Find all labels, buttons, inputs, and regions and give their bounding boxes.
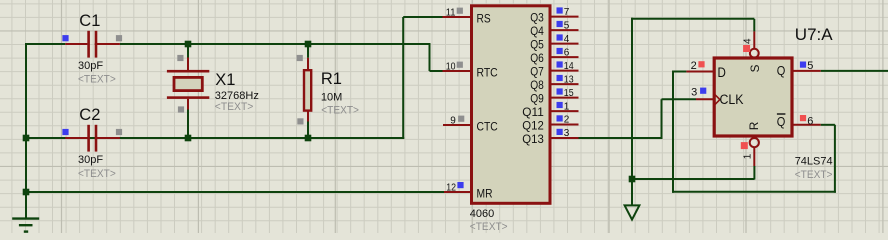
4060 pin 4 Q5 — [551, 43, 578, 45]
wire Q13 to CLK — [579, 137, 663, 139]
svg-text:14: 14 — [564, 61, 574, 72]
svg-text:15: 15 — [564, 88, 574, 99]
svg-text:4: 4 — [564, 34, 570, 45]
svg-text:10M: 10M — [321, 91, 342, 103]
svg-text:13: 13 — [564, 74, 574, 85]
svg-text:D: D — [718, 64, 726, 80]
svg-text:74LS74: 74LS74 — [795, 156, 833, 168]
svg-text:1: 1 — [742, 153, 753, 159]
svg-text:Q11: Q11 — [522, 105, 544, 119]
svg-text:R1: R1 — [321, 70, 342, 88]
4060 pin 3 Q13 — [551, 137, 578, 139]
4060 pin 6 Q6 — [551, 56, 578, 58]
U7:A pin 4 S lead and bubble — [753, 31, 755, 48]
svg-text:11: 11 — [446, 7, 456, 18]
flip-flop U7:A body — [714, 58, 792, 136]
svg-text:30pF: 30pF — [78, 154, 103, 166]
ground (right, arrow symbol) — [625, 205, 640, 219]
svg-text:Q4: Q4 — [530, 24, 544, 38]
4060 pin 9 CTC stub — [443, 124, 471, 126]
wire top rail (C1 / X1 top / R1 top to RTC) — [25, 43, 65, 45]
U7:A pin 6 Q-bar stub — [793, 124, 821, 126]
svg-text:RS: RS — [477, 11, 491, 25]
4060 pin 10 RTC stub — [443, 70, 472, 72]
wire left vertical rail — [25, 43, 27, 219]
junction node ground tee — [23, 189, 30, 196]
R1 pin marker gray top — [297, 55, 303, 61]
svg-text:<TEXT>: <TEXT> — [795, 169, 833, 181]
svg-text:4060: 4060 — [470, 208, 494, 220]
svg-text:C1: C1 — [79, 12, 100, 30]
svg-text:12: 12 — [446, 182, 456, 193]
junction node X1 top — [185, 41, 192, 48]
4060 pin 14 Q7 — [551, 70, 578, 72]
svg-text:4: 4 — [743, 38, 754, 44]
svg-text:<TEXT>: <TEXT> — [215, 101, 254, 113]
svg-text:MR: MR — [477, 186, 493, 200]
svg-text:5: 5 — [564, 20, 570, 31]
C2 pin marker blue — [62, 129, 68, 135]
svg-text:<TEXT>: <TEXT> — [78, 73, 116, 85]
ground (left, earth symbol) — [25, 192, 27, 219]
svg-text:X1: X1 — [215, 71, 235, 89]
svg-text:S: S — [748, 65, 762, 73]
svg-text:CTC: CTC — [477, 119, 498, 133]
svg-text:C2: C2 — [79, 106, 100, 124]
svg-text:<TEXT>: <TEXT> — [470, 221, 508, 233]
svg-text:9: 9 — [450, 115, 456, 126]
X1 pin marker gray top — [177, 55, 183, 61]
C1 pin marker gray — [116, 35, 122, 41]
svg-text:U7:A: U7:A — [795, 25, 833, 44]
U7:A pin 5 Q stub — [793, 70, 821, 72]
svg-text:Q8: Q8 — [530, 78, 544, 92]
C1 pin marker blue — [62, 35, 68, 41]
4060 pin 13 Q8 — [551, 83, 578, 85]
svg-text:3: 3 — [691, 87, 697, 99]
wire RTC jog down — [429, 43, 431, 71]
wire S/R ground net — [631, 18, 633, 206]
svg-text:6: 6 — [564, 47, 570, 58]
4060 pin 15 Q9 — [551, 97, 578, 99]
svg-text:<TEXT>: <TEXT> — [78, 168, 116, 180]
svg-text:2: 2 — [564, 115, 570, 126]
svg-text:5: 5 — [807, 60, 813, 72]
U7:A pin 3 CLK stub — [696, 98, 714, 100]
svg-text:7: 7 — [564, 7, 570, 18]
U7:A clock triangle — [714, 94, 720, 105]
svg-text:RTC: RTC — [477, 65, 498, 79]
svg-text:Q: Q — [777, 63, 786, 78]
4060 pin 12 MR stub — [444, 191, 471, 193]
4060 pin 2 Q12 — [551, 124, 578, 126]
svg-text:3: 3 — [564, 128, 570, 139]
4060 pin 11 RS stub — [443, 16, 472, 18]
svg-text:Q12: Q12 — [522, 119, 544, 133]
C2 pin marker gray — [116, 129, 122, 135]
svg-text:Q9: Q9 — [530, 92, 544, 106]
R1 pin marker gray bottom — [297, 118, 303, 124]
svg-text:10: 10 — [446, 61, 456, 72]
4060 pin 5 Q4 — [551, 29, 578, 31]
crystal X1 — [187, 45, 189, 58]
junction node R-pin ground tee — [629, 176, 636, 183]
capacitor C2 — [65, 137, 87, 139]
wire RS riser — [402, 17, 404, 139]
svg-text:CLK: CLK — [720, 92, 744, 107]
U7:A pin markers — [698, 61, 704, 67]
svg-text:1: 1 — [564, 101, 570, 112]
junction node R1 bottom — [305, 135, 312, 142]
svg-text:Q7: Q7 — [530, 65, 544, 79]
svg-text:Q: Q — [777, 114, 786, 129]
U7:A pin 1 R lead and bubble — [750, 138, 759, 147]
4060 pin 7 Q3 — [551, 16, 578, 18]
X1 pin marker gray bottom — [178, 106, 184, 112]
junction node X1 bottom — [185, 135, 192, 142]
svg-text:R: R — [747, 121, 761, 130]
IC U? 4060 body — [472, 6, 551, 204]
4060 left pin markers — [457, 8, 463, 14]
wire D feedback from Q-bar — [673, 71, 686, 73]
wire bottom net (C2 / X1 bottom / R1 bottom to RS) — [25, 137, 404, 139]
junction node C2 tee — [23, 135, 30, 142]
wire Q output to right edge — [821, 70, 888, 72]
4060 pin 1 Q11 — [551, 110, 578, 112]
svg-text:Q3: Q3 — [530, 11, 544, 25]
svg-text:Q5: Q5 — [530, 38, 544, 52]
capacitor C1 — [65, 43, 87, 45]
svg-text:<TEXT>: <TEXT> — [321, 105, 359, 117]
svg-text:2: 2 — [691, 60, 697, 72]
svg-text:30pF: 30pF — [78, 60, 103, 72]
resistor R1 — [307, 45, 309, 58]
svg-text:Q13: Q13 — [522, 132, 544, 146]
junction node R1 top — [305, 41, 312, 48]
svg-text:6: 6 — [807, 115, 813, 127]
U7:A pin 2 D stub — [686, 71, 714, 73]
svg-text:Q6: Q6 — [530, 51, 544, 65]
wire ground rail — [25, 191, 444, 193]
